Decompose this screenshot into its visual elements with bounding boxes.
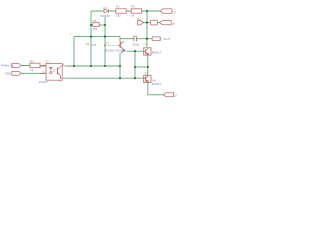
svg-text:BC817-16SMD: BC817-16SMD xyxy=(105,48,127,52)
svg-text:OUT: OUT xyxy=(164,37,171,41)
svg-text:R8: R8 xyxy=(93,19,97,23)
svg-text:D1: D1 xyxy=(104,6,108,10)
svg-text:T2: T2 xyxy=(143,43,147,47)
svg-text:BAT48: BAT48 xyxy=(101,14,111,18)
svg-text:R2: R2 xyxy=(131,5,135,9)
svg-text:1k: 1k xyxy=(30,68,34,72)
svg-text:1k: 1k xyxy=(131,13,135,17)
svg-text:2k2: 2k2 xyxy=(116,13,121,17)
svg-text:T3: T3 xyxy=(144,72,148,76)
svg-text:R9: R9 xyxy=(86,42,90,46)
svg-text:100n: 100n xyxy=(133,42,140,46)
svg-text:47k: 47k xyxy=(91,43,96,47)
svg-text:IC1: IC1 xyxy=(45,59,50,63)
svg-text:GND: GND xyxy=(5,71,13,75)
svg-text:R4: R4 xyxy=(30,59,34,63)
svg-text:PC817: PC817 xyxy=(39,80,49,84)
svg-text:BC817: BC817 xyxy=(152,50,162,54)
svg-text:R1: R1 xyxy=(116,5,120,9)
svg-text:PWM_IN: PWM_IN xyxy=(1,64,13,68)
svg-text:5V: 5V xyxy=(138,18,141,21)
svg-text:C2: C2 xyxy=(133,34,137,38)
svg-text:BC817: BC817 xyxy=(152,82,162,86)
svg-text:T1: T1 xyxy=(106,41,110,45)
svg-text:10k: 10k xyxy=(92,27,97,31)
